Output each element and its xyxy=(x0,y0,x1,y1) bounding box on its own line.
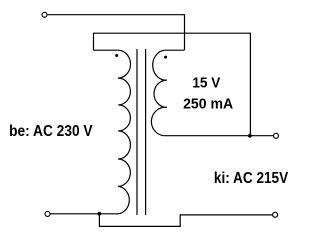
svg-text:be: AC 230 V: be: AC 230 V xyxy=(9,123,93,140)
svg-text:250 mA: 250 mA xyxy=(183,95,233,112)
svg-text:ki: AC 215V: ki: AC 215V xyxy=(214,170,289,187)
svg-text:15 V: 15 V xyxy=(192,76,220,92)
